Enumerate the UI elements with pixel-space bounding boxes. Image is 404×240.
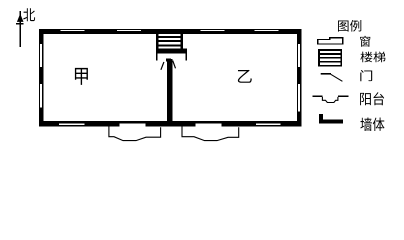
legend door symbol <box>321 74 343 82</box>
window bottom wall 2 <box>256 123 281 124</box>
balcony right (room 乙) <box>182 126 239 140</box>
legend label 窗 <box>360 36 370 47</box>
stair landing bar <box>156 49 187 54</box>
stair arrow cap <box>166 59 171 62</box>
dividing wall <box>167 59 173 126</box>
landing left jamb <box>156 53 158 60</box>
balcony left (room 甲) <box>109 126 161 140</box>
window bottom wall 1 <box>59 123 85 124</box>
stair arrow right whisker <box>173 61 176 69</box>
window left wall 2 <box>40 84 42 107</box>
stair tread 1 <box>159 36 181 38</box>
north label 北 <box>23 8 35 21</box>
stairwell right wall <box>181 34 184 49</box>
room label 乙 <box>238 70 252 83</box>
stair tread 3 <box>159 44 181 46</box>
legend window symbol <box>318 38 343 44</box>
legend label 楼梯 <box>360 52 385 63</box>
legend title 图例 <box>338 20 361 32</box>
north arrow <box>16 11 24 47</box>
wall top <box>39 29 302 34</box>
legend balcony symbol <box>313 95 349 102</box>
wall right <box>297 29 302 126</box>
landing right jamb <box>185 53 187 60</box>
window top wall 3 <box>201 30 225 31</box>
legend label 门 <box>360 70 372 81</box>
window top wall 2 <box>117 30 141 31</box>
balcony door opening right (wire) <box>195 123 221 126</box>
window top wall 4 <box>255 30 279 31</box>
room label 甲 <box>75 68 88 85</box>
wall bottom <box>39 121 302 126</box>
legend label 阳台 <box>360 92 384 105</box>
balcony door opening left (wire) <box>119 123 145 126</box>
window right wall 1 <box>298 44 300 67</box>
window left wall 1 <box>40 44 42 67</box>
legend label 墙体 <box>360 118 384 131</box>
window top wall 1 <box>61 30 85 31</box>
legend stairs symbol <box>318 49 342 66</box>
stairwell left wall <box>156 34 159 49</box>
wall left <box>39 29 43 126</box>
window right wall 2 <box>298 84 300 111</box>
legend wall symbol <box>319 114 343 123</box>
stair arrow left whisker <box>161 62 164 70</box>
stair tread 2 <box>159 40 181 42</box>
